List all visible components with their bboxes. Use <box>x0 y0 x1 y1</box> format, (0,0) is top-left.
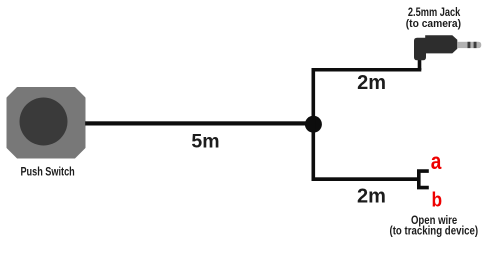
push switch button <box>20 98 68 146</box>
jack plug ring 1 <box>468 42 471 48</box>
jack plug shaft <box>457 42 476 48</box>
wire: junction vertical riser (up branch) <box>312 68 316 125</box>
2.5mm jack J1 body <box>414 35 457 60</box>
svg-text:b: b <box>432 189 443 211</box>
svg-text:2m: 2m <box>357 72 386 94</box>
svg-text:Push Switch: Push Switch <box>20 165 74 179</box>
svg-text:2m: 2m <box>357 185 386 207</box>
wire 5m: switch to junction <box>85 121 313 125</box>
wire: vertical into jack <box>418 58 422 70</box>
jack plug tip <box>477 42 482 48</box>
svg-text:(to camera): (to camera) <box>406 18 462 30</box>
jack plug ring 2 <box>474 42 477 48</box>
wire 2m lower horizontal <box>312 177 419 181</box>
svg-text:a: a <box>431 148 442 174</box>
junction node <box>305 116 322 133</box>
push switch SW1 body <box>8 88 85 158</box>
wire 2m upper horizontal <box>312 68 422 72</box>
svg-text:5m: 5m <box>191 130 219 152</box>
svg-text:(to tracking device): (to tracking device) <box>390 226 479 238</box>
open wire split bracket <box>419 171 429 188</box>
wire: junction vertical drop (down branch) <box>312 124 316 181</box>
